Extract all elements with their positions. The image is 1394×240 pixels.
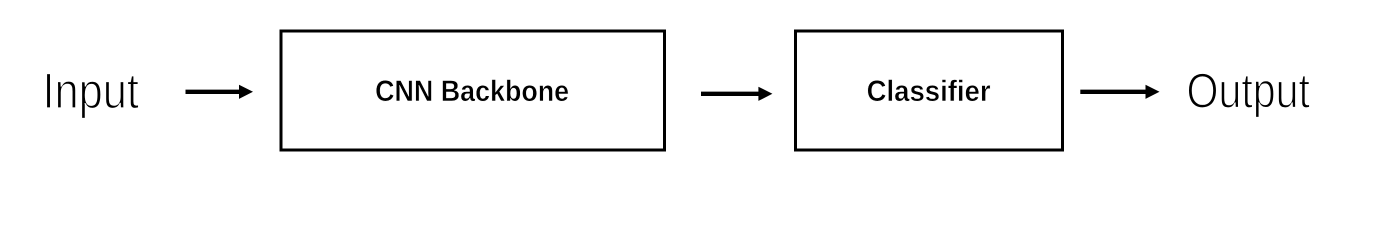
svg-text:Classifier: Classifier [867, 75, 991, 108]
svg-text:Input: Input [43, 63, 140, 119]
wire arrow from Classifier to Output [1080, 85, 1159, 99]
node CNN Backbone box [281, 31, 665, 150]
wire arrow from Input to CNN Backbone [186, 85, 254, 99]
svg-text:Output: Output [1187, 65, 1311, 119]
svg-text:CNN Backbone: CNN Backbone [375, 75, 569, 108]
wire arrow from CNN Backbone to Classifier [701, 87, 772, 101]
node Classifier box [796, 31, 1063, 150]
